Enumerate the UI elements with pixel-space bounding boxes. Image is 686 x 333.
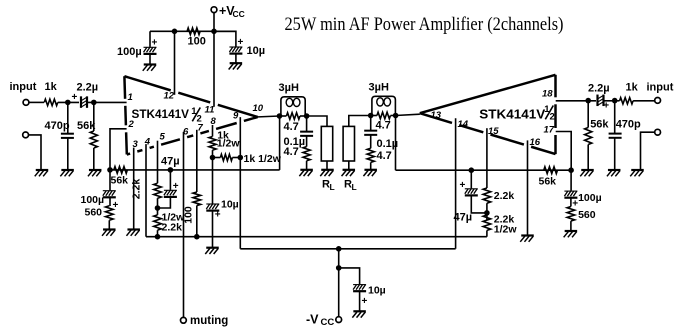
svg-text:STK4141V: STK4141V [132,107,190,121]
svg-text:4.7: 4.7 [284,146,299,158]
capacitor 10u VCC (electrolytic) [229,46,242,48]
ground under 56k input left [89,169,102,171]
svg-text:1: 1 [128,92,133,103]
inductor 3uH left [281,97,305,116]
node C junction dot right [585,98,591,104]
capacitor 100u VCC drop wire [149,31,151,47]
capacitor 0.1u left [300,131,313,133]
pin 2 wire to rail [110,129,127,170]
ground under 10u VCC [230,62,243,64]
load RL right rectangle [343,126,354,161]
input terminal J3 upper right [655,98,661,104]
svg-text:470p: 470p [616,119,641,131]
ground under 100u VCC [144,63,157,65]
capacitor 2.2u left (electrolytic) [80,96,82,108]
resistor 4.7 coil left [286,113,300,120]
svg-text:100µ: 100µ [117,46,142,58]
svg-text:1/2w: 1/2w [494,223,518,235]
pin 7 wire to bus [196,206,198,237]
input terminal J4 lower right [655,129,661,135]
muting terminal [181,317,187,323]
ground under 56k input right [581,169,594,171]
ground under pin 16 [521,234,534,236]
ground under load right [343,169,356,171]
pin 14 wire down [455,118,457,249]
capacitor 47u right wire [470,170,472,188]
wire coil to pin 13 [396,114,420,115]
pin 15 wire [486,128,488,188]
resistor 56k right input branch [587,101,589,128]
pin 8 wire [212,125,214,137]
svg-text:56k: 56k [539,176,557,188]
input terminal J2 lower [23,132,29,138]
svg-text:1k: 1k [45,81,58,93]
op-amp U1 bottom edge (dashed by pin gaps) [127,152,130,155]
ground under pin 3 [127,228,140,230]
node rail-right dot [568,167,574,173]
zobel right wire [370,116,372,131]
node coil-left dot L [277,113,283,119]
node 47u dot right [469,167,475,173]
wire 10u VCC to ground [235,54,237,63]
node rail-left dot [107,167,113,173]
svg-text:14: 14 [458,119,469,130]
op-amp U1 left edge [123,76,126,99]
node coil-left dot R [368,113,374,119]
svg-text:12: 12 [164,91,175,102]
op-amp U2 bottom edge (dashed by pin gaps) [420,113,452,123]
capacitor 47u left wire [169,170,171,190]
svg-text:+: + [460,180,466,191]
svg-text:+: + [238,37,244,48]
+VCC terminal [211,7,217,13]
node chain-bus dot left [155,234,161,240]
wire to load left [307,116,327,126]
resistor 4.7 coil right [377,112,391,119]
wire 47u right to chain mid [471,196,487,213]
capacitor 47u left (electrolytic) [164,189,177,191]
feedback rail right channel [396,169,572,171]
svg-text:CC: CC [233,9,245,19]
wire load right to ground [348,161,350,170]
wire chain mid [157,198,159,215]
resistor 4.7 zobel left [303,147,310,161]
ground under 560 right [565,230,578,232]
resistor 2.2k 1/2w lower right chain [483,215,491,230]
svg-text:1k 1/2w: 1k 1/2w [244,153,282,165]
node coil-right dot R [393,113,399,119]
resistor 2.2k upper left chain [154,183,162,198]
ground under load left [321,169,334,171]
node D junction dot right [612,98,618,104]
pin 17 wire to rail [556,132,572,171]
wire cap to pin 1 [87,101,127,103]
wire chain to bus right [486,230,488,236]
svg-text:56k: 56k [77,120,96,132]
node VCC-left dot (pin 12) [172,29,178,35]
node 47u dot left [168,167,174,173]
zobel left mid wire [306,136,308,147]
node B junction dot [91,100,97,106]
svg-text:10µ: 10µ [247,45,266,57]
zobel left lower wire [306,161,308,170]
svg-text:8: 8 [211,116,217,127]
capacitor 0.1u right [364,130,377,132]
svg-text:STK4141V: STK4141V [479,107,546,121]
svg-text:17: 17 [544,125,555,136]
load RL left rectangle [321,126,332,161]
resistor 100 left [193,192,201,206]
wire pin10 to coil node [256,116,280,117]
ground under zobel left [300,169,313,171]
wire 56k to ground [93,148,95,170]
resistor 560 left [109,198,111,206]
svg-text:7: 7 [198,123,204,134]
svg-text:2.2µ: 2.2µ [588,83,610,95]
pin 5 wire [157,141,159,184]
svg-text:100µ: 100µ [81,194,105,206]
ground under J4 [631,169,644,171]
svg-text:4.7: 4.7 [377,150,392,162]
pin 16 wire to ground [527,140,529,235]
svg-text:-V: -V [306,313,319,327]
wire 1k to node [212,150,214,157]
svg-text:100: 100 [183,206,195,224]
resistor 56k NF right [544,167,558,174]
svg-text:1k: 1k [626,82,639,94]
wire chain to bus [157,230,159,237]
svg-text:+: + [362,296,368,307]
capacitor 2.2u right (electrolytic) [596,95,598,107]
resistor 2.2k upper right chain [483,188,491,203]
wire 100u to ground [149,55,151,65]
zobel right mid wire [370,135,372,148]
wire J2 to ground [29,135,42,170]
op-amp U1 STK4141V left-half top edge [124,76,170,90]
resistor 2.2k 1/2w lower left chain [154,215,162,230]
svg-text:L: L [352,182,357,192]
wire 1k to node A [58,101,79,103]
capacitor 100u right branch (electrolytic) [570,170,572,191]
svg-text:2: 2 [550,112,555,123]
inductor 3uH right [372,96,396,115]
svg-text:2.2k: 2.2k [162,222,183,234]
svg-text:15: 15 [488,126,499,137]
pin 18 wire [556,100,596,102]
svg-text:input: input [647,82,674,94]
resistor 560 right [570,198,572,206]
VCC rail wire [150,30,236,32]
svg-text:470p: 470p [45,120,70,132]
svg-text:+: + [173,181,179,192]
pin 3 wire to ground [133,148,135,230]
svg-text:4.7: 4.7 [376,119,391,131]
wire 470p to ground [67,138,69,170]
svg-text:2.2k: 2.2k [130,179,142,200]
node 10u tap dot [336,265,342,271]
svg-text:56k: 56k [111,175,129,187]
svg-text:2.2µ: 2.2µ [77,82,99,94]
ground under zobel right [364,169,377,171]
node 1k-right dot [238,155,244,161]
ground under 560 left [103,228,116,230]
wire 10u -VCC to ground [359,292,361,311]
svg-text:3µH: 3µH [279,82,299,94]
node chain-mid dot left [155,205,161,211]
pin 12 wire [174,31,176,95]
wire cap to 1k right [604,100,620,102]
svg-text:560: 560 [578,209,596,221]
ground under 470p right [608,169,621,171]
wire load left to ground [326,161,328,170]
wire 1k to terminal right [633,100,655,102]
node VCC-right dot (pin 11) [211,29,217,35]
svg-text:+: + [603,101,609,112]
resistor 1k input left [44,99,58,105]
capacitor 470p left [61,133,74,135]
node -VCC tap dot [336,246,342,252]
ground under 470p [61,169,74,171]
pin 6 muting wire [183,132,185,318]
capacitor 100u VCC (electrolytic) [144,46,157,48]
pin 7 wire upper [196,130,198,192]
svg-text:47µ: 47µ [161,156,180,168]
capacitor 470p right branch [614,101,616,134]
op-amp U2 STK4141V right-half top edge [420,75,556,113]
wire -VCC down [338,249,340,317]
svg-text:56k: 56k [590,119,609,131]
capacitor 100u left branch (electrolytic) [109,170,111,190]
pin 9 wire down [239,117,241,249]
svg-text:5: 5 [160,132,166,143]
capacitor 47u right (electrolytic) [465,188,478,190]
op-amp U2 right edge [554,75,557,98]
svg-text:16: 16 [530,137,541,148]
resistor 4.7 zobel right [367,148,374,162]
ground under 10u left [206,247,219,249]
node 1k-left dot [210,155,216,161]
capacitor 10u left branch [212,158,214,204]
svg-text:10: 10 [253,103,264,114]
capacitor 10u -VCC (electrolytic) [353,284,366,286]
ground under 10u -VCC [353,310,366,312]
svg-text:10µ: 10µ [221,199,239,211]
svg-text:2.2k: 2.2k [494,190,515,202]
resistor 1k 1/2w pin8 [209,137,216,151]
input terminal J1 upper [23,100,29,106]
resistor 56k NF left [114,167,128,174]
svg-text:25W min AF Power Amplifier (2c: 25W min AF Power Amplifier (2channels) [285,14,564,35]
svg-text:input: input [10,81,37,93]
negative supply bus LINE2 [240,248,455,250]
svg-text:100: 100 [188,36,206,48]
svg-text:13: 13 [431,110,442,121]
feedback rail left channel [110,169,280,171]
resistor 1k input right [620,98,634,104]
ground under J2 [36,169,49,171]
pin 4 wire to bus [145,144,147,237]
feedback tap wire left [279,116,281,170]
resistor 1k 1/2w horizontal [213,157,221,159]
zobel left wire [306,116,308,132]
svg-text:+: + [215,209,221,220]
wire chain mid right [486,203,488,220]
-VCC terminal [336,317,342,323]
svg-text:3µH: 3µH [369,82,389,94]
node A junction dot [65,100,71,106]
svg-text:18: 18 [542,88,553,99]
feedback tap wire right [395,116,397,171]
resistor 56k left input [90,131,97,148]
capacitor 10u VCC branch wire [214,31,236,46]
svg-text:CC: CC [321,317,335,328]
node chain-mid dot right [484,210,490,216]
svg-text:2: 2 [128,119,135,130]
svg-text:4: 4 [144,137,151,148]
svg-text:+: + [152,37,158,48]
wire load right to node [349,116,371,127]
ground bus BUS1 [146,236,487,238]
wire J1 to R 1k [29,101,44,103]
resistor 56k left input branch wire [93,102,95,131]
svg-text:47µ: 47µ [454,212,473,224]
svg-text:10µ: 10µ [368,285,386,297]
svg-text:muting: muting [190,315,228,327]
pin 11 wire [213,31,215,107]
svg-text:9: 9 [233,111,239,122]
wire 47u to chain mid [158,198,171,208]
zobel right lower wire [370,162,372,169]
svg-text:11: 11 [205,105,215,116]
svg-text:4.7: 4.7 [284,121,299,133]
capacitor 470p left branch wire [67,102,69,133]
wire J4 to ground [641,132,655,170]
svg-text:560: 560 [85,207,103,219]
svg-text:1/2w: 1/2w [217,137,241,149]
capacitor 10u -VCC branch wire [339,268,360,284]
svg-text:100µ: 100µ [578,192,602,204]
node 100-bus dot [194,234,200,240]
node coil-right dot L [304,113,310,119]
resistor 100 VCC [187,28,200,35]
svg-text:L: L [330,182,335,192]
